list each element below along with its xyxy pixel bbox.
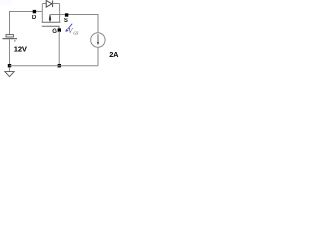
mosfet M1 gate bar (42, 26, 59, 30)
mosfet M1 channel bar (42, 21, 61, 23)
battery V1 plate short (rect) (6, 35, 13, 37)
battery V1 plate long (3, 38, 18, 40)
wire S rail (bulk corner to current source corner) (50, 15, 98, 34)
node gate-bottom junction (58, 64, 61, 67)
background (0, 0, 120, 90)
battery polarity dot (14, 40, 16, 42)
diode D1 cathode bar (52, 1, 54, 8)
ground triangle (5, 72, 14, 77)
current source I1 arrowhead (97, 42, 99, 45)
ground stub (9, 67, 11, 72)
wire bottom rail (10, 65, 99, 67)
wire battery- down (9, 39, 11, 65)
mosfet M1 bulk arrow shaft (49, 15, 51, 18)
wire gate to bottom rail (58, 31, 60, 66)
svg-text:S: S (64, 18, 68, 24)
node S (65, 13, 68, 16)
node bottom-left (8, 64, 11, 67)
diode D1 triangle (46, 1, 52, 8)
wire drain vertical (41, 4, 43, 23)
svg-text:G: G (52, 29, 57, 35)
annotation arrow Vgs (blue) (68, 24, 73, 30)
svg-text:12V: 12V (14, 44, 28, 53)
diode D1 cathode wire (53, 3, 60, 5)
svg-text:D: D (32, 15, 37, 21)
node D (33, 10, 36, 13)
svg-text:2A: 2A (109, 50, 119, 59)
node G (58, 28, 61, 31)
wire current source to bottom rail (97, 47, 99, 65)
wire source vertical (diode cathode down through S rail to channel) (59, 4, 61, 23)
mosfet M1 bulk arrowhead (49, 15, 51, 22)
current source I1 circle (91, 33, 105, 47)
diode D1 anode wire (42, 3, 47, 5)
wire top rail left (battery+ to drain) (10, 12, 43, 36)
current source I1 arrow shaft (97, 34, 99, 42)
